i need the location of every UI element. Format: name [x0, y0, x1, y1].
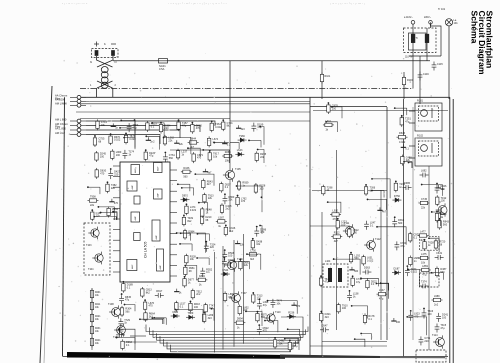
transistor T110 [264, 312, 275, 325]
wire [229, 61, 231, 121]
svg-text:470: 470 [263, 330, 268, 333]
resistor D189 [122, 282, 125, 293]
wire [160, 336, 298, 343]
resistor T382 [106, 182, 109, 193]
IF transformer Fi101 (shield box) [409, 103, 442, 131]
capacitor C631 [435, 255, 444, 260]
ground [174, 289, 179, 292]
svg-text:560: 560 [183, 175, 188, 178]
svg-text:100: 100 [259, 188, 264, 191]
resistor T192 [436, 195, 439, 206]
capacitor L692 [420, 173, 429, 178]
diode R236 [287, 315, 296, 319]
pilot lamp La101 [445, 19, 452, 26]
svg-text:100: 100 [194, 306, 199, 309]
resistor R211 [90, 301, 93, 312]
svg-text:2n2: 2n2 [225, 208, 230, 211]
resistor R963 [121, 339, 124, 350]
resistor R676 [109, 134, 112, 145]
wire [214, 252, 216, 353]
scan artifact bottom smear [67, 352, 285, 359]
svg-text:47µ: 47µ [405, 120, 410, 123]
input terminal Bu1 [77, 95, 81, 99]
power transformer Tr101 (dashed enclosure) [404, 28, 437, 53]
svg-text:0.022: 0.022 [399, 141, 406, 144]
wire [152, 318, 164, 324]
svg-text:AA 1000: AA 1000 [55, 98, 66, 102]
diode D750 [392, 198, 401, 202]
filter block (dashed box) [420, 237, 440, 251]
capacitor R862 [116, 332, 125, 337]
capacitor R552 [200, 268, 205, 277]
svg-text:0.1: 0.1 [368, 318, 372, 321]
wire [313, 110, 448, 112]
resistor D245 [95, 151, 98, 162]
svg-text:0.1: 0.1 [127, 286, 131, 289]
ground [391, 318, 396, 321]
svg-text:560: 560 [354, 270, 359, 273]
svg-text:100: 100 [396, 321, 401, 324]
resistor T464 [210, 121, 213, 132]
svg-text:100: 100 [442, 316, 447, 319]
resistor L852 [238, 305, 241, 316]
wire [229, 121, 231, 170]
resistor R231 [90, 325, 93, 336]
wire [121, 121, 135, 134]
wire [258, 150, 264, 164]
svg-text:C860: C860 [172, 311, 179, 314]
svg-text:47µ: 47µ [400, 245, 405, 248]
svg-text:47µ: 47µ [356, 281, 361, 284]
wire [140, 319, 163, 324]
svg-text:AM L 800: AM L 800 [55, 117, 67, 121]
svg-text:220: 220 [114, 174, 119, 177]
wire [288, 329, 300, 336]
svg-text:T966: T966 [239, 135, 245, 138]
svg-text:T110: T110 [275, 311, 281, 314]
wire [260, 226, 262, 234]
svg-text:Fi102: Fi102 [417, 135, 424, 138]
resistor L192 [349, 253, 352, 264]
svg-text:Tr 101: Tr 101 [438, 8, 446, 11]
resistor R178 [363, 313, 366, 324]
resistor C748 [351, 276, 354, 287]
resistor R664 [144, 311, 147, 322]
wire [261, 197, 264, 212]
svg-text:AMP: AMP [155, 234, 158, 239]
svg-text:AMP: AMP [157, 166, 160, 171]
ground [291, 302, 296, 305]
wire [412, 50, 414, 89]
svg-text:br: br [115, 61, 117, 64]
resistor L209 [202, 312, 205, 323]
svg-text:220: 220 [424, 340, 429, 343]
svg-text:L587: L587 [218, 216, 224, 219]
capacitor C146 [418, 72, 423, 81]
wire [180, 244, 192, 251]
capacitor D845 [119, 295, 124, 304]
resistor R720 [434, 239, 437, 250]
svg-text:47µ: 47µ [149, 155, 154, 158]
resistor R201 [90, 289, 93, 300]
resistor C971 [408, 232, 411, 243]
svg-text:C750: C750 [250, 249, 257, 252]
wire [222, 246, 224, 350]
wire [113, 212, 117, 220]
resistor C750 [247, 253, 258, 256]
ground [236, 125, 241, 128]
resistor L689 [432, 298, 443, 301]
resistor T298 [322, 185, 325, 196]
wire [386, 107, 388, 340]
wire [412, 107, 414, 340]
svg-text:L930: L930 [333, 209, 339, 212]
svg-text:470: 470 [149, 305, 154, 308]
resistor L262 [163, 135, 166, 146]
resistor R575 [256, 312, 259, 323]
svg-text:AMP: AMP [159, 264, 162, 269]
resistor T628 [423, 240, 426, 251]
svg-text:R284: R284 [225, 151, 232, 154]
resistor T913 [203, 193, 206, 204]
wire [355, 339, 365, 347]
svg-text:0.1: 0.1 [370, 224, 374, 227]
capacitor D363 [362, 270, 371, 275]
wire [153, 330, 303, 337]
input terminal Bu2 [77, 99, 81, 103]
wire [312, 190, 387, 192]
wire [376, 284, 388, 291]
wire [322, 341, 387, 343]
svg-text:3k3: 3k3 [250, 258, 255, 261]
wire [79, 96, 450, 98]
wire [247, 254, 261, 270]
resistor R146 [402, 76, 405, 87]
wire [422, 185, 443, 196]
wire [361, 334, 371, 340]
svg-text:100: 100 [341, 223, 346, 226]
IC U101 internal block 3 [131, 212, 140, 222]
IC U101 internal block 10 [134, 233, 140, 241]
wire [170, 149, 230, 151]
wire [182, 188, 194, 196]
svg-text:220: 220 [210, 246, 215, 249]
svg-text:470: 470 [196, 127, 201, 130]
resistor L674 [207, 136, 210, 147]
svg-text:AA L 800: AA L 800 [55, 126, 66, 130]
wire [428, 166, 430, 236]
resistor D630 [95, 168, 98, 179]
resistor L547 [377, 292, 388, 295]
resistor D228 [254, 183, 257, 194]
capacitor C761 [163, 153, 168, 162]
transistor T112 [364, 238, 375, 251]
resistor T409 [182, 215, 185, 226]
transistor T108 [109, 305, 120, 318]
diode D950 [180, 198, 189, 202]
svg-text:470: 470 [100, 172, 105, 175]
transistor T106 [225, 258, 237, 272]
wire [176, 310, 204, 323]
transistor T107 [229, 291, 240, 304]
diode C544 [221, 272, 230, 276]
resistor C804 [196, 278, 207, 281]
wire [164, 137, 191, 154]
svg-text:560: 560 [354, 257, 359, 260]
resistor T457 [177, 120, 180, 131]
svg-text:0.1: 0.1 [405, 147, 409, 150]
svg-text:D950: D950 [182, 195, 189, 198]
wire [80, 118, 230, 120]
svg-text:T374: T374 [421, 281, 427, 284]
svg-text:220V~: 220V~ [424, 16, 432, 19]
svg-text:0.022: 0.022 [215, 126, 222, 129]
wire [197, 258, 209, 265]
svg-text:C745: C745 [421, 198, 428, 201]
wire [281, 317, 303, 334]
wire [395, 108, 407, 115]
svg-text:, .- .. , ., . .- . :., .: , .- .. , ., . .- . :., . ,. .-- . , [330, 1, 365, 5]
resistor D354 [159, 123, 162, 134]
ground [146, 137, 151, 140]
svg-text:4k7: 4k7 [382, 210, 387, 213]
ground [111, 123, 116, 126]
wire [310, 106, 387, 108]
resistor R939 [237, 180, 240, 191]
wire [361, 278, 378, 286]
wire [321, 212, 323, 357]
wire [171, 345, 291, 352]
wire [372, 179, 390, 198]
resistor D537 [220, 182, 223, 193]
resistor D961 [184, 265, 187, 276]
wire [285, 339, 299, 350]
svg-text:a 110V~: a 110V~ [404, 16, 413, 19]
svg-text:T105: T105 [235, 168, 241, 171]
svg-text:0.1: 0.1 [225, 186, 229, 189]
wire [230, 120, 310, 122]
svg-text:C804: C804 [199, 275, 206, 278]
ground [222, 141, 227, 144]
svg-text:2n2: 2n2 [150, 140, 155, 143]
wire [429, 238, 439, 252]
wire [157, 333, 301, 340]
svg-text:47µ: 47µ [263, 304, 268, 307]
capacitor T324 [204, 243, 209, 252]
wire [309, 97, 311, 356]
resistor T908 [87, 199, 98, 202]
capacitor R508 [222, 251, 227, 260]
wire [407, 317, 427, 335]
svg-text:C631: C631 [436, 252, 443, 255]
wire [431, 273, 443, 280]
resistor C745 [419, 201, 430, 204]
wire [431, 22, 442, 56]
svg-text:100: 100 [228, 255, 233, 258]
svg-text:2n2: 2n2 [434, 304, 439, 307]
svg-text:R231: R231 [95, 328, 101, 330]
wire [167, 342, 293, 349]
resistor R328 [185, 254, 188, 265]
capacitor D995 [403, 185, 412, 190]
capacitor C724 [394, 241, 399, 250]
wire [381, 283, 389, 299]
resistor C878 [327, 103, 330, 114]
svg-text:L692: L692 [421, 170, 427, 173]
capacitor C741 [419, 336, 424, 345]
wire [214, 143, 239, 149]
wire [130, 335, 146, 337]
capacitor D522 [257, 326, 262, 335]
wire [419, 56, 421, 104]
svg-text:100: 100 [427, 313, 432, 316]
resistor C813 [141, 287, 144, 298]
svg-text:AM L/MW: AM L/MW [55, 102, 67, 106]
svg-text:Schéma: Schéma [470, 11, 480, 44]
terminal [411, 21, 415, 25]
IF transformer Fi102 (shield box) [409, 138, 442, 166]
resistor D210 [200, 214, 203, 225]
IC U101 internal block 1 [131, 165, 140, 175]
wire [164, 339, 296, 346]
svg-text:560: 560 [228, 262, 233, 265]
wire [404, 162, 412, 168]
wire [409, 163, 413, 169]
capacitor T563 [127, 123, 132, 132]
wire [310, 225, 350, 227]
svg-text:470: 470 [197, 157, 202, 160]
wire [211, 309, 214, 321]
wire [150, 327, 306, 334]
wire [181, 233, 191, 240]
IC U101 internal block 4 [127, 260, 137, 271]
svg-text:AMP: AMP [134, 215, 137, 220]
transistor T111 [343, 224, 355, 238]
resistor D522 [366, 279, 369, 290]
IC U101 internal block 2 [127, 181, 137, 191]
transistor T109 [114, 323, 125, 336]
IC U101 pins [113, 166, 177, 276]
svg-text:T908: T908 [90, 196, 96, 199]
svg-text:R236: R236 [288, 311, 295, 314]
svg-text:8k2: 8k2 [187, 220, 192, 223]
diode T966 [238, 138, 247, 142]
wire [185, 266, 197, 281]
resistor D387 [435, 267, 438, 278]
wire [246, 311, 262, 326]
capacitor L498 [257, 300, 262, 309]
svg-text:AMP: AMP [131, 264, 134, 269]
svg-text:- , . .- .. . , -.: - , . .- .. . , -. . ... - [62, 1, 87, 5]
resistor C716 [288, 340, 291, 351]
wire [203, 150, 229, 163]
resistor C167 [91, 210, 94, 221]
input terminal Bu3 [77, 103, 81, 107]
svg-text:L477: L477 [420, 231, 426, 234]
svg-text:R211: R211 [95, 304, 101, 306]
speaker connector (dashed box) [416, 350, 446, 362]
resistor T817 [208, 151, 211, 162]
svg-text:3k3: 3k3 [208, 317, 213, 320]
resistor D644 [188, 141, 199, 144]
resistor C522 [348, 227, 351, 238]
svg-text:Tr: Tr [416, 36, 418, 40]
resistor T910 [337, 303, 340, 314]
svg-text:0.1: 0.1 [151, 125, 155, 128]
wire [328, 202, 341, 213]
wire [368, 199, 387, 210]
wire [86, 121, 215, 126]
ground [377, 207, 382, 210]
diode D187 [392, 271, 401, 275]
svg-text:560: 560 [443, 223, 448, 226]
wire [372, 191, 384, 198]
resistor T306 [364, 185, 367, 196]
resistor L762 [236, 196, 239, 207]
ground [174, 140, 179, 143]
capacitor D286 [254, 228, 259, 237]
wire [426, 50, 428, 61]
wire [98, 207, 114, 220]
transistor T105 [223, 168, 235, 182]
resistor D984 [183, 229, 186, 240]
wire [134, 120, 137, 140]
capacitor R817 [155, 293, 164, 298]
svg-text:470: 470 [296, 305, 301, 308]
svg-text:47µ: 47µ [440, 327, 445, 330]
resistor R241 [90, 337, 93, 348]
svg-text:D547: D547 [322, 324, 329, 327]
wire [336, 150, 338, 330]
svg-text:T108: T108 [108, 303, 114, 306]
svg-text:47µ: 47µ [293, 345, 298, 348]
svg-text:L869: L869 [422, 265, 428, 268]
svg-text:R645: R645 [399, 132, 406, 135]
svg-text:D750: D750 [394, 195, 401, 198]
svg-text:560: 560 [261, 316, 266, 319]
wire [177, 233, 206, 253]
svg-text:R817: R817 [156, 290, 163, 293]
resistor L676 [143, 300, 146, 311]
svg-text:T689: T689 [188, 312, 194, 315]
input terminal Bu4 [77, 119, 81, 123]
svg-text:470: 470 [260, 231, 265, 234]
resistor R284 [222, 154, 233, 157]
wire [86, 130, 180, 138]
svg-text:R201: R201 [95, 292, 101, 294]
wire [125, 305, 136, 312]
wire [332, 107, 342, 118]
ground [235, 241, 240, 244]
capacitor D346 [435, 185, 440, 194]
svg-text:L547: L547 [379, 289, 385, 292]
svg-text:4k7: 4k7 [334, 240, 339, 243]
wire [80, 103, 310, 105]
svg-text:L104: L104 [325, 260, 331, 263]
resistor L960 [111, 149, 114, 160]
resistor R543 [202, 179, 205, 190]
svg-text:0.5A: 0.5A [159, 67, 165, 71]
svg-text:470: 470 [333, 218, 338, 221]
record/play switch S1 (dashed box) [84, 223, 110, 275]
svg-text:T103: T103 [86, 244, 92, 247]
resistor L601 [323, 123, 334, 126]
wire [432, 212, 441, 226]
resistor C714 [96, 119, 99, 130]
resistor R295 [255, 151, 258, 162]
svg-text:100: 100 [100, 155, 105, 158]
svg-text:2n2: 2n2 [196, 293, 201, 296]
